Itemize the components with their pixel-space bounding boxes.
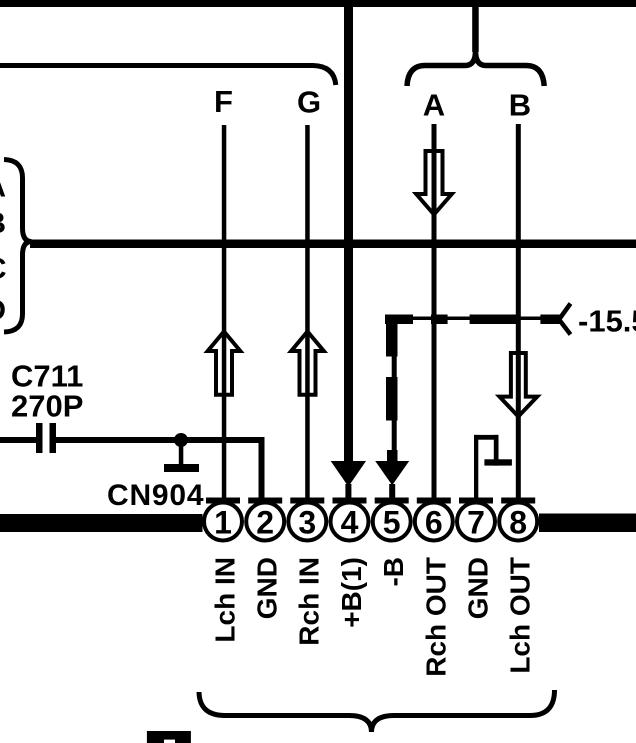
svg-text:8: 8 <box>509 505 527 541</box>
svg-text:-B: -B <box>378 557 409 587</box>
svg-text:7: 7 <box>467 505 485 541</box>
svg-text:GND: GND <box>463 557 494 619</box>
svg-text:G: G <box>297 85 321 120</box>
svg-text:Rch OUT: Rch OUT <box>420 557 451 677</box>
svg-text:Lch OUT: Lch OUT <box>505 557 536 674</box>
svg-text:F: F <box>214 84 233 119</box>
svg-text:-15.5: -15.5 <box>578 304 636 339</box>
svg-text:C: C <box>0 253 7 286</box>
svg-text:B: B <box>0 207 6 240</box>
svg-text:6: 6 <box>425 505 443 541</box>
svg-text:A: A <box>0 171 6 204</box>
svg-text:Lch IN: Lch IN <box>210 557 241 643</box>
svg-text:2: 2 <box>256 505 274 541</box>
svg-text:4: 4 <box>341 505 359 541</box>
svg-text:5: 5 <box>383 505 401 541</box>
svg-text:CN904: CN904 <box>107 479 204 512</box>
svg-text:1: 1 <box>214 505 232 541</box>
svg-text:Rch IN: Rch IN <box>294 557 325 646</box>
svg-text:270P: 270P <box>11 389 83 424</box>
svg-text:A: A <box>423 88 445 123</box>
svg-text:+B(1): +B(1) <box>336 557 367 628</box>
svg-text:GND: GND <box>252 557 283 619</box>
svg-text:3: 3 <box>298 505 316 541</box>
svg-text:D: D <box>0 294 6 327</box>
svg-text:B: B <box>509 88 531 123</box>
